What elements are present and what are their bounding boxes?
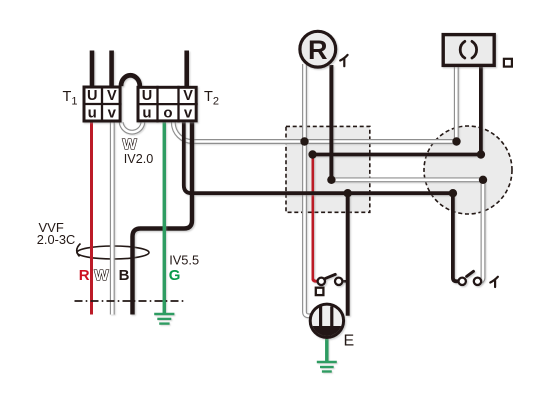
svg-text:v: v — [108, 105, 117, 122]
wire: white W of VVF from T1-v down — [110, 123, 115, 315]
joint 1 — [300, 137, 308, 145]
svg-text:V: V — [183, 88, 193, 104]
svg-text:U: U — [142, 88, 152, 104]
label katakana RO (rosette) — [504, 59, 512, 67]
svg-text:W: W — [94, 267, 109, 284]
wire: black from joint 4 down to outlet — [346, 193, 350, 316]
svg-text:IV5.5: IV5.5 — [169, 253, 199, 268]
label katakana I (lamp) — [340, 55, 347, 66]
lamp receptacle R — [300, 31, 336, 67]
outlet with earth terminal E — [310, 304, 343, 337]
wire: black B of VVF from T2-v right lead down-left — [133, 122, 193, 314]
label katakana RO (switch) — [316, 288, 324, 295]
terminal block T1 — [83, 86, 122, 123]
wire: white from joint 3 to joint C and down to switch I — [331, 180, 483, 281]
svg-text:V: V — [107, 88, 117, 104]
wire: white lamp lead + down to outlet — [305, 64, 312, 316]
wire: feed into T1-V — [109, 51, 114, 87]
wire: feed into T1-U — [90, 51, 95, 87]
wire: black hot from T2-v left lead to joint 4, joint D, down to switch I — [184, 122, 459, 281]
wire: green from outlet to ground — [325, 339, 329, 364]
ground symbol right — [317, 361, 337, 363]
svg-text:u: u — [88, 105, 97, 122]
joint 2 — [308, 150, 316, 158]
svg-text:R: R — [79, 267, 90, 284]
svg-text:R: R — [308, 35, 328, 65]
wire: red from joint 2 down to switch RO — [313, 155, 318, 282]
wire: white lead of ceiling rosette — [454, 66, 459, 142]
ceiling rosette ( ) — [443, 35, 494, 66]
svg-text:IV2.0: IV2.0 — [124, 152, 153, 166]
wire: black from joint 2 to joint B — [313, 153, 481, 157]
svg-text:U: U — [87, 88, 97, 104]
wire: feed into T2-V — [184, 51, 189, 87]
switch I — [459, 271, 482, 285]
svg-text:W: W — [123, 136, 138, 153]
terminal block T2 — [137, 86, 198, 123]
wire: white from T2-o to joint 1 and joint A — [173, 122, 456, 141]
joint 3 — [327, 176, 335, 184]
svg-text:v: v — [184, 105, 193, 122]
wire: black lead of ceiling rosette down to joint B — [479, 66, 483, 155]
ground symbol left — [154, 313, 174, 315]
junction box (dashed square) — [286, 126, 370, 212]
svg-text:E: E — [344, 333, 355, 350]
wire: white jumper loop T1-v to T2-u — [121, 122, 143, 132]
svg-text:B: B — [119, 267, 130, 284]
joint 4 — [344, 189, 352, 197]
joint A — [452, 137, 460, 145]
switch RO — [318, 274, 343, 285]
joint D — [449, 189, 457, 197]
svg-text:o: o — [163, 105, 172, 122]
joint B — [477, 150, 485, 158]
wire: red R of VVF from T1-u down — [90, 123, 93, 315]
svg-text:u: u — [142, 105, 151, 122]
cable sheath ellipse (VVF) — [77, 244, 149, 260]
outlet box (dashed circle) — [424, 126, 512, 214]
svg-text:G: G — [169, 267, 181, 284]
wire: black lamp lead down to joint 3 — [329, 65, 333, 180]
wire: green IV5.5 from T2-o down — [163, 122, 167, 313]
label katakana I (switch) — [490, 277, 498, 287]
joint C — [479, 176, 487, 184]
wire: black jumper loop T1-V to T2-U — [121, 75, 140, 86]
boundary dash-dot line — [75, 300, 186, 302]
svg-text:2.0-3C: 2.0-3C — [37, 232, 75, 247]
wire: link switch RO right contact to black vertical — [342, 280, 347, 283]
